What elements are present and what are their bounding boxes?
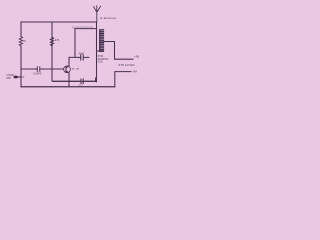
- svg-text:47pF: 47pF: [78, 52, 84, 56]
- svg-text:47K: 47K: [55, 38, 60, 42]
- svg-text:STD 12V/DC: STD 12V/DC: [119, 63, 135, 67]
- svg-text:ANTENNA: ANTENNA: [98, 58, 109, 61]
- svg-text:10 MFD: 10 MFD: [33, 74, 42, 76]
- svg-text:COIL: COIL: [98, 61, 104, 63]
- svg-text:1K: 1K: [23, 41, 26, 43]
- svg-text:tv antenna: tv antenna: [100, 16, 116, 20]
- svg-text:-9V: -9V: [132, 70, 137, 74]
- svg-text:BC 148: BC 148: [72, 69, 80, 71]
- svg-text:+9V: +9V: [134, 54, 139, 58]
- svg-text:MIC: MIC: [7, 76, 12, 80]
